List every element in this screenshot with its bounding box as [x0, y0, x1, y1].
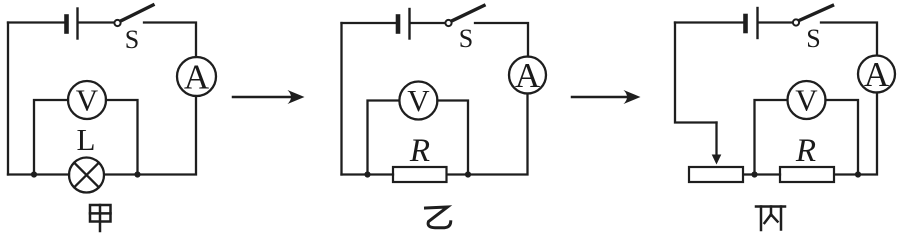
rheostat RP: [689, 167, 743, 182]
resistor R2: [393, 167, 447, 182]
wire switch to top-right corner and down to ammeter: [144, 23, 196, 58]
wire ammeter down to bottom-right corner: [470, 94, 528, 175]
ammeter A2: [509, 56, 546, 95]
node left junction: [364, 171, 370, 177]
label 丙: [756, 207, 785, 231]
node right junction: [465, 171, 471, 177]
rheostat slider arrow: [712, 123, 722, 165]
wire left vertical: [7, 23, 9, 175]
node left junction: [31, 171, 37, 177]
svg-text:A: A: [184, 58, 210, 97]
svg-text:A: A: [515, 56, 541, 95]
svg-text:V: V: [76, 83, 99, 118]
wire voltmeter-branch left: [755, 100, 788, 175]
lamp L1: [69, 158, 104, 193]
battery B3: [746, 8, 758, 38]
wire top-left from corner to battery: [8, 21, 64, 23]
svg-text:S: S: [806, 24, 820, 53]
svg-text:L: L: [77, 122, 96, 157]
wire voltmeter-branch right: [826, 100, 859, 175]
wire top-left from corner to battery: [675, 21, 743, 23]
label 乙: [426, 207, 451, 228]
wire battery to switch: [759, 21, 792, 23]
label 甲: [90, 205, 111, 231]
voltmeter V3: [788, 81, 826, 119]
ammeter A3: [858, 55, 895, 94]
wire top-left from corner to battery: [342, 22, 396, 24]
voltmeter V2: [399, 82, 437, 120]
wire switch to top-right corner and down to ammeter: [475, 23, 528, 57]
wire right-dot to resistor: [834, 173, 858, 175]
wire voltmeter-branch right: [106, 100, 138, 175]
wire resistor to left-dot and corner: [342, 173, 394, 175]
arrow between 甲 and 乙: [233, 90, 305, 104]
wire ammeter down to bottom-right corner: [139, 96, 196, 175]
svg-text:R: R: [795, 133, 816, 169]
battery B2: [398, 9, 410, 39]
wire bottom right-dot to lamp: [104, 173, 138, 175]
wire battery to switch: [411, 22, 445, 24]
wire left vertical: [340, 23, 342, 175]
wire voltmeter-branch left: [34, 100, 68, 175]
node right junction: [134, 171, 140, 177]
wire left-dot to rheostat: [743, 173, 755, 175]
wire ammeter down to bottom-right corner: [860, 93, 877, 175]
wire resistor to left-dot: [757, 173, 781, 175]
voltmeter V1: [68, 81, 106, 119]
wire switch to top-right corner and down to ammeter: [821, 23, 877, 56]
svg-text:V: V: [795, 83, 818, 118]
battery B1: [67, 9, 78, 39]
wire lamp to left-dot and corner: [8, 173, 69, 175]
wire voltmeter-branch left: [368, 101, 400, 175]
ammeter A1: [177, 57, 216, 97]
switch S3: [793, 6, 833, 26]
node left junction: [751, 171, 757, 177]
svg-text:R: R: [409, 133, 430, 169]
svg-text:V: V: [407, 83, 430, 118]
switch S2: [445, 6, 484, 27]
wire right-dot to resistor: [447, 173, 469, 175]
svg-text:S: S: [125, 25, 139, 54]
wire battery to switch: [79, 21, 114, 23]
resistor R3: [780, 167, 834, 182]
svg-text:A: A: [864, 55, 890, 94]
switch S1: [114, 5, 153, 26]
wire voltmeter-branch right: [437, 101, 468, 175]
arrow between 乙 and 丙: [572, 90, 641, 104]
svg-text:S: S: [459, 24, 473, 53]
wire left vertical with jog: [675, 23, 717, 123]
node right junction: [855, 171, 861, 177]
